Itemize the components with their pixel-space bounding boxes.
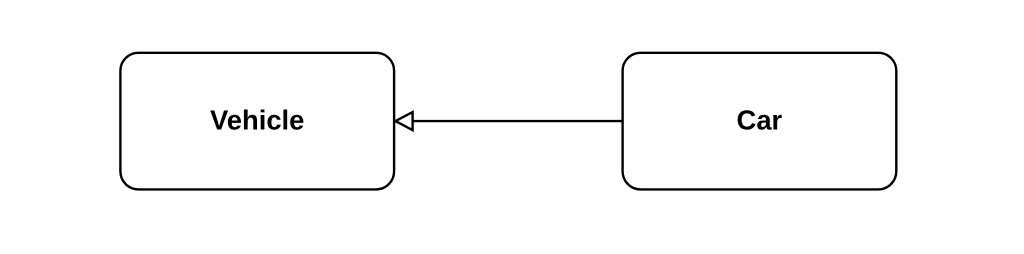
svg-text:Car: Car [737,105,783,136]
svg-text:Vehicle: Vehicle [210,105,304,136]
